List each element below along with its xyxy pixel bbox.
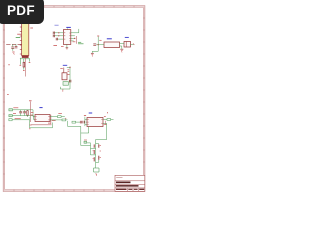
net under connector <box>20 58 30 70</box>
routed net below left block <box>9 119 53 128</box>
U1 top-right wire <box>71 29 79 33</box>
main box X1 label <box>107 38 112 40</box>
left block input wires <box>12 110 35 120</box>
capacitor left of net <box>93 43 96 45</box>
oscillator circuit: left vertical net <box>92 37 98 53</box>
title text row 3 cells <box>116 189 127 190</box>
component ladder rungs <box>91 144 99 163</box>
right block left input flag <box>72 117 87 126</box>
IC U1 label <box>66 26 71 28</box>
left block pin marks <box>36 117 50 120</box>
VCC tick top <box>97 35 99 37</box>
red text left-bottom of U1 <box>61 45 64 47</box>
left block body <box>35 115 50 122</box>
label left of connector (green) <box>16 37 21 39</box>
red label right of right block <box>104 121 106 125</box>
red vertical label right of U1 <box>75 36 77 44</box>
right block outputs <box>103 119 114 124</box>
wires between X1 and Y1 <box>120 43 125 45</box>
right block body <box>87 118 103 127</box>
U1 bottom stub and ground <box>66 44 68 47</box>
title block h-lines <box>115 180 145 182</box>
red marks right of U1 <box>73 41 76 43</box>
connector J1 (yellow highlighted) <box>22 23 29 56</box>
U1 right pin wires <box>71 36 75 41</box>
left block label <box>39 107 42 109</box>
tiny net label near left frame <box>8 64 10 66</box>
ground left <box>91 52 94 54</box>
red labels above flags <box>13 107 18 109</box>
cap right of regulator <box>68 80 70 83</box>
red tick below green box <box>62 89 63 91</box>
frame band filler <box>4 7 144 191</box>
main box X1 <box>104 42 120 48</box>
left block outputs <box>50 116 68 121</box>
PDF badge <box>0 0 44 24</box>
caps on left block input <box>19 112 26 113</box>
frame inner border <box>5 7 144 189</box>
ground under Y1 <box>120 48 123 50</box>
title block outer <box>115 175 145 191</box>
left block right red label <box>50 115 52 124</box>
crystal Y1 label <box>125 36 129 38</box>
tiny net label near left frame lower <box>7 94 9 96</box>
capacitor C2 <box>15 44 18 48</box>
net flag at ladder left <box>84 141 87 143</box>
net from left flag down to loop <box>68 121 107 168</box>
wire to connector left <box>6 43 21 45</box>
long red label line under connector <box>25 58 27 77</box>
resistor vertical at left block input <box>27 111 28 116</box>
battery / ground symbol bottom <box>94 168 100 172</box>
capacitor C1 <box>11 44 14 51</box>
ticks at bottom of tall red line <box>30 124 32 126</box>
small blue label near top <box>55 24 59 26</box>
short wire at routed net corner <box>29 117 31 120</box>
frame outer border <box>3 6 145 192</box>
wire net to X1 <box>98 44 104 46</box>
label left of connector (red) <box>17 33 21 35</box>
U1 left pin wires <box>54 33 64 39</box>
red text under left caps <box>53 44 57 46</box>
red text above regulator <box>60 68 63 70</box>
title text row 1 <box>116 182 131 184</box>
right block label <box>89 112 93 114</box>
stub right of Y1 <box>131 43 134 45</box>
faint label in title top cell <box>116 177 122 179</box>
red ticks right of regulator <box>68 69 70 71</box>
title block v-dividers <box>127 188 129 191</box>
crystal Y1 <box>124 42 131 48</box>
ladder components <box>94 144 99 161</box>
green net below regulator <box>60 86 70 90</box>
ground ticks under connector <box>20 64 22 66</box>
left block: net flag 1 <box>9 109 13 117</box>
green component box <box>63 82 68 86</box>
connector J1 bottom pad <box>22 56 29 58</box>
wires above regulator <box>63 68 65 73</box>
title text row 2 <box>116 185 139 187</box>
junction dots on U1 left <box>58 32 59 33</box>
red text near net <box>99 39 101 41</box>
U1 pin marks <box>64 33 71 41</box>
label right of connector <box>30 27 33 29</box>
right block pin marks <box>88 119 103 124</box>
ground under C1 <box>12 51 14 53</box>
U1 top pin stub <box>66 28 68 29</box>
caps at right block input <box>80 121 84 124</box>
caps on U1 left pins <box>53 32 57 41</box>
red text line under left block <box>31 124 52 126</box>
resistor R1 <box>23 62 25 67</box>
connector J1 pin ticks <box>20 27 22 54</box>
tall red label line left of box <box>29 102 31 123</box>
green text right of U1 <box>78 41 81 43</box>
frame tick marks <box>3 6 145 192</box>
regulator sub-circuit label <box>63 64 67 66</box>
regulator body <box>62 73 67 80</box>
IC U1 body <box>63 30 70 45</box>
